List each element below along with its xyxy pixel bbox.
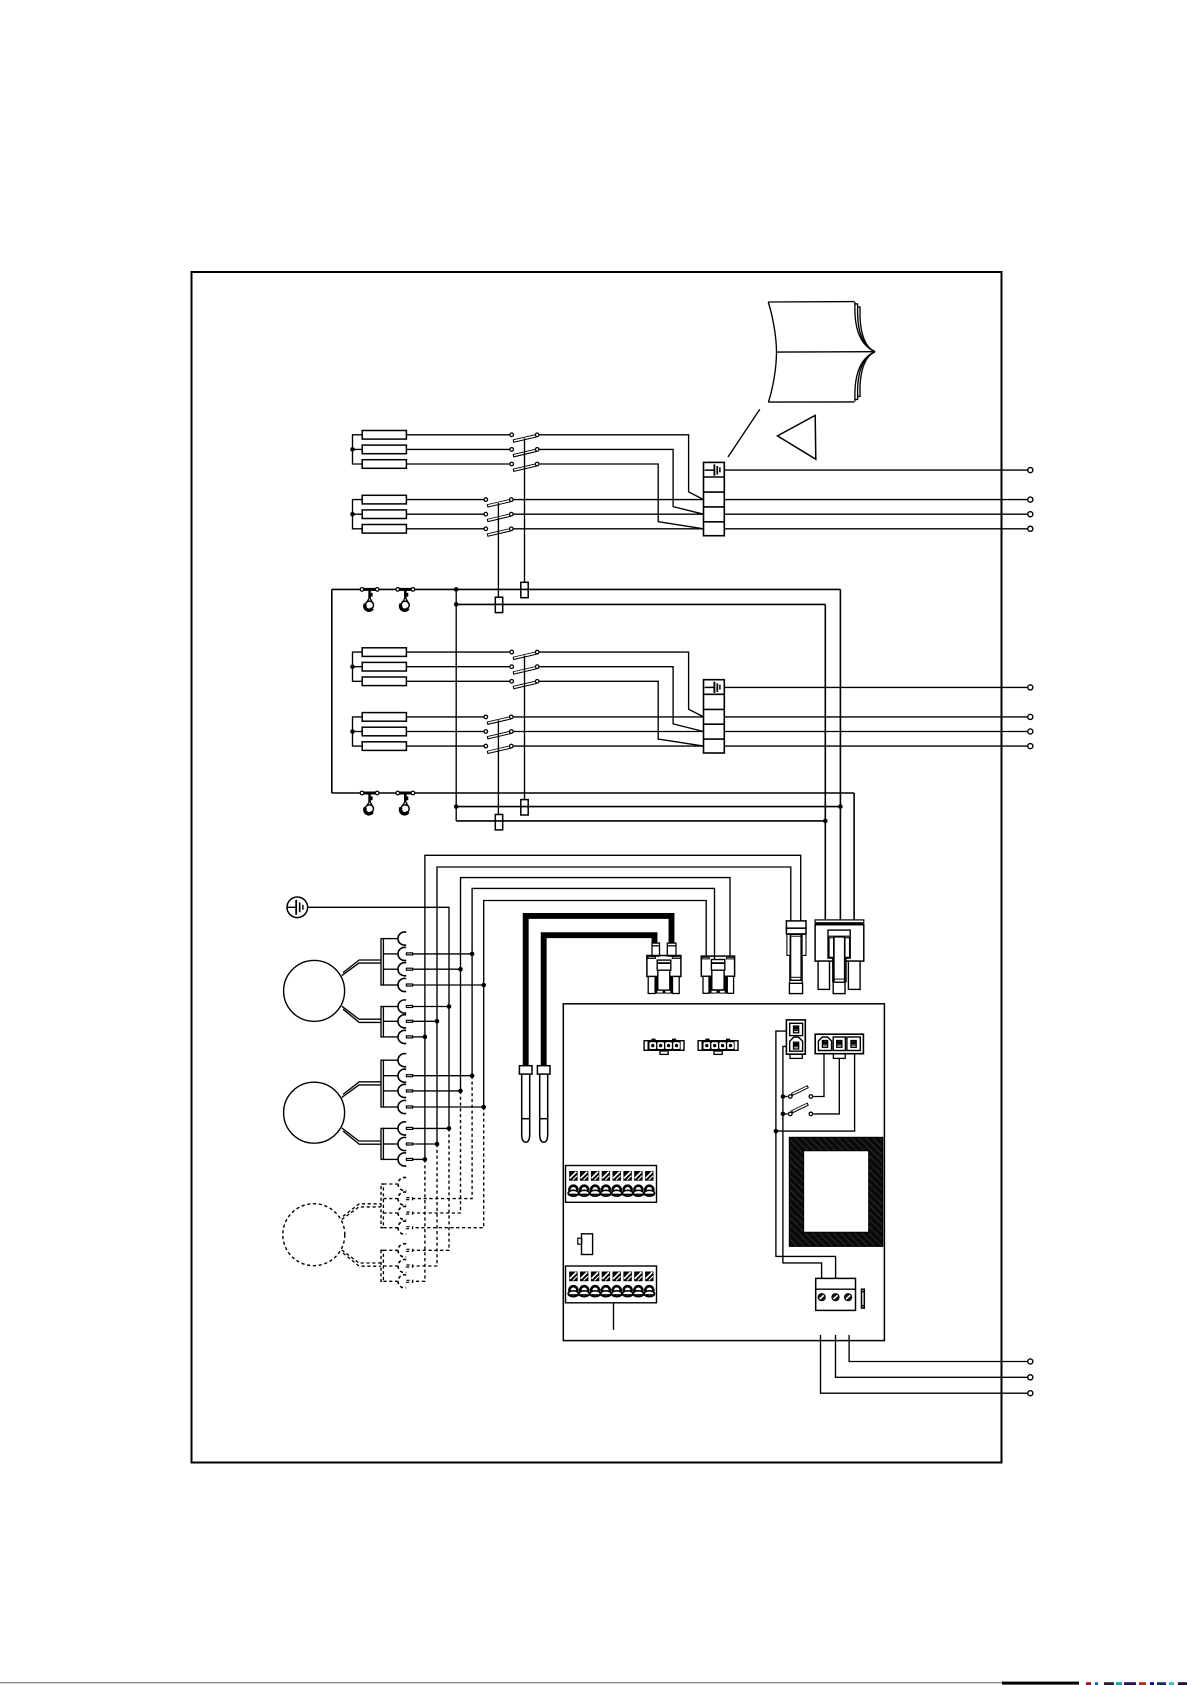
connector K3 housing [381, 1060, 383, 1107]
lead M1 upper [342, 960, 381, 976]
heavy probe cable 2 [544, 935, 655, 1066]
book centre line [777, 351, 876, 353]
connector K1 socket 4 [383, 978, 412, 991]
connector K2 socket 3 [383, 1030, 412, 1043]
wire K4.1 to earth bus [413, 1127, 449, 1129]
wire box left edge [331, 589, 333, 793]
callout line from terminal block to book [728, 409, 760, 457]
connector K3 socket 4 [383, 1100, 412, 1113]
thermal cutout T2 [396, 588, 415, 611]
thermal cutout T1 [360, 588, 379, 611]
transformer TR [789, 1137, 882, 1246]
wire K3.2 to bus5 [413, 1075, 473, 1077]
wire drop to connector pin1 [839, 589, 841, 921]
wire bus6 dashed tail [413, 1107, 484, 1228]
node bus1 K2.3 [423, 1035, 428, 1040]
wire K2.2 to bus2 [413, 1020, 437, 1022]
node earth K2.1 [447, 1004, 452, 1009]
node mains N [1028, 1375, 1033, 1380]
pcb header X1 [643, 1039, 684, 1055]
outer border frame [192, 272, 1002, 1463]
heater group 1 (upper) [350, 431, 1033, 613]
node relay2 pivot [781, 1112, 786, 1117]
wire relay feed 1 [776, 1031, 836, 1278]
wire lower bus A [456, 806, 840, 808]
wire second top line [456, 603, 825, 605]
wire TS2 stub [613, 1303, 615, 1330]
probe connector J2 (bus leads) [701, 956, 734, 993]
lead M3 lower (dashed) [342, 1250, 381, 1266]
wire K3.3 to bus4 [413, 1090, 461, 1092]
motor M2 [284, 1082, 345, 1143]
connector K3 socket 1 [383, 1054, 406, 1067]
connector K2 socket 1 [383, 1000, 412, 1013]
node mains E [1028, 1391, 1033, 1396]
wire K2.3 to bus1 [413, 1036, 425, 1038]
wire K3.4 to bus6 [413, 1106, 484, 1108]
node bus A right [838, 804, 843, 809]
mains terminal block TB [816, 1278, 856, 1310]
pcb outline [563, 1004, 884, 1341]
temperature probe 2 [537, 1066, 550, 1143]
wire bus1 dashed tail [413, 1159, 425, 1281]
node earth K4.1 [447, 1126, 452, 1131]
relay contact 1 [783, 1087, 813, 1099]
terminal strip TS2 [566, 1266, 657, 1303]
node bus4 K1.3 [458, 967, 463, 972]
wire relay1 to X4.1 [814, 1054, 825, 1097]
wire mains N [836, 1335, 1028, 1377]
wire K1.4 to bus6 [413, 984, 484, 986]
terminal strip TS1 [566, 1166, 657, 1203]
connector K4 socket 3 [383, 1153, 412, 1166]
node bus A tie [454, 804, 459, 809]
wire drop to connector pin3 [853, 793, 855, 921]
node bus2 K4.2 [435, 1142, 440, 1147]
pcb connector X4 (3-way) [815, 1034, 863, 1058]
wire K1.3 to bus4 [413, 968, 461, 970]
wire earth bus dashed tail [413, 1128, 449, 1250]
connector K4 housing [381, 1128, 383, 1159]
wire relay feed 2 [783, 1046, 822, 1278]
lead M2 lower [342, 1128, 381, 1144]
wire box top edge [332, 588, 841, 590]
wire bus6 [484, 901, 707, 1108]
wire K2.1 to earth bus [413, 1006, 449, 1008]
node bus4 K3.3 [458, 1089, 463, 1094]
wire earth bus [308, 907, 449, 1128]
connector K3 socket 3 [383, 1084, 412, 1097]
node bus1 K4.3 [423, 1157, 428, 1162]
wire K1.2 to bus5 [413, 953, 473, 955]
wire K4.3 to bus1 [413, 1158, 425, 1160]
wire bus4 dashed tail [413, 1091, 461, 1213]
temperature probe 1 [519, 1066, 532, 1143]
node second line tie [454, 602, 459, 607]
connector K4 socket 2 [383, 1137, 412, 1150]
heater group 2 (lower) [350, 648, 1033, 830]
wire mains L [849, 1335, 1028, 1362]
connector K1 socket 3 [383, 963, 412, 976]
open book symbol (refer to manual) [768, 302, 875, 403]
thermal cutout T3 [360, 791, 379, 814]
wire bus2 dashed tail [413, 1144, 437, 1266]
triangle pointer symbol [778, 415, 816, 459]
node bus2 K2.2 [435, 1019, 440, 1024]
wire bus5 dashed tail [413, 1076, 473, 1199]
node top edge tie [454, 587, 459, 592]
wire bus4 [461, 878, 731, 1091]
wire X4.3 return [776, 1054, 855, 1131]
node bus6 K3.4 [481, 1105, 486, 1110]
heavy probe cable 1 [526, 916, 672, 1067]
book pages top [855, 302, 875, 352]
pcb connector X3 (2-way) [786, 1020, 805, 1058]
probe connector J1 (thick leads) [647, 943, 681, 993]
connector K6 (optional, dashed) [381, 1244, 413, 1288]
pcb header X2 [697, 1039, 738, 1055]
node bus5 K3.2 [470, 1073, 475, 1078]
earth symbol [287, 897, 308, 918]
connector K1 housing [381, 939, 383, 985]
connector K3 socket 2 [383, 1069, 412, 1082]
wire drop to connector pin2 [824, 604, 826, 921]
connector K2 socket 2 [383, 1015, 412, 1028]
motor M3 (optional, dashed) [283, 1204, 345, 1266]
wire mains E [821, 1335, 1028, 1393]
connector K2 housing [381, 1007, 383, 1037]
main supply connector J4 [815, 920, 864, 994]
wire tie bus vertical [455, 589, 457, 821]
connector K1 socket 2 [383, 947, 412, 960]
node return tie [774, 1129, 779, 1134]
wire bus5 [472, 888, 714, 1075]
node relay1 pivot [781, 1094, 786, 1099]
wire box bottom edge [332, 792, 854, 794]
lead M1 lower [342, 1006, 381, 1022]
lead M2 upper [342, 1082, 381, 1098]
component U1 [578, 1234, 593, 1255]
connector K4 socket 1 [383, 1122, 412, 1135]
thermal cutout T4 [396, 791, 415, 814]
wire K4.2 to bus2 [413, 1143, 437, 1145]
node mains L [1028, 1359, 1033, 1364]
connector K1 socket 1 [383, 932, 406, 945]
wire bus2 (to splice left pin) [437, 867, 791, 1144]
wire lower bus B [456, 820, 825, 822]
connector K5 (optional, dashed) [381, 1177, 413, 1234]
lead M3 upper (dashed) [342, 1204, 381, 1220]
wire bus1 (to splice right pin) [425, 855, 801, 1159]
relay contact 2 [783, 1104, 813, 1116]
node bus5 K1.2 [470, 952, 475, 957]
book pages bottom [855, 352, 875, 402]
motor M1 [284, 960, 345, 1021]
splice connector J3 [786, 921, 806, 994]
jumper bar [861, 1289, 865, 1308]
footer artifacts [0, 1682, 1187, 1685]
node bus B right [823, 819, 828, 824]
wire relay2 to X4.2 [814, 1058, 840, 1114]
node bus6 K1.4 [481, 983, 486, 988]
book cover [768, 302, 854, 403]
